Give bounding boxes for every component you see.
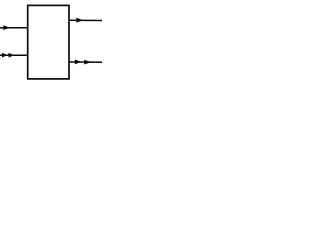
wire output 1 xyxy=(69,19,102,21)
wire input 2 xyxy=(0,54,28,56)
arrowhead input 2 second xyxy=(9,53,15,58)
arrowhead output 2 first xyxy=(75,60,82,65)
arrowhead input 1 xyxy=(3,25,10,30)
wire input 1 xyxy=(0,27,28,29)
wire output 2 xyxy=(69,61,102,63)
block U1 xyxy=(28,5,69,79)
arrowhead output 1 xyxy=(76,18,83,23)
arrowhead input 2 first xyxy=(2,53,8,58)
arrowhead output 2 second xyxy=(84,60,91,65)
